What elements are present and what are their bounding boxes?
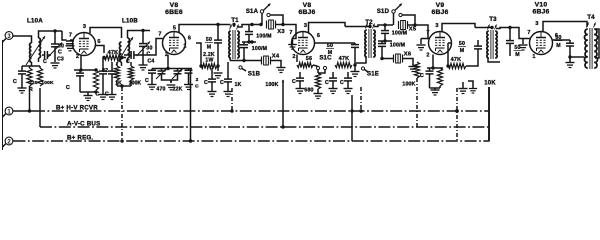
wire terminal 1 stub — [3, 114, 6, 117]
capacitor 50/M T3 — [509, 28, 511, 41]
contact S1D alt — [399, 13, 402, 16]
wire L10B bottom down — [121, 62, 123, 66]
svg-text:V10: V10 — [535, 2, 548, 9]
coil L10B primary — [120, 42, 122, 62]
svg-text:6BE6: 6BE6 — [165, 9, 183, 16]
svg-text:10K: 10K — [484, 81, 496, 87]
capacitor 100/M lower — [243, 42, 245, 45]
capacitor C bypass (333) — [332, 72, 334, 78]
svg-text:C: C — [204, 80, 208, 86]
ground tube4 grid return — [421, 38, 428, 40]
svg-text:C: C — [292, 79, 296, 85]
capacitor 100/M lower stage4 — [381, 41, 383, 44]
svg-text:M: M — [460, 48, 465, 54]
resistor 82 cathode — [93, 70, 98, 90]
wire T1 bottom joins — [229, 58, 231, 61]
wire tube5 grid bracket — [519, 34, 530, 39]
capacitor C bypass (212) — [211, 68, 213, 79]
svg-text:M: M — [556, 43, 561, 49]
svg-text:1: 1 — [532, 54, 535, 60]
wire T1 secondary top to crystal line — [238, 25, 261, 28]
resistor cathode tube4 — [437, 68, 442, 86]
wire T1 top stem — [233, 25, 235, 28]
wire riser T1 B+ — [231, 88, 233, 111]
terminal 3 (input) — [5, 32, 13, 40]
contact S1E — [361, 67, 364, 70]
resistor 220K — [29, 66, 31, 68]
svg-text:C: C — [420, 73, 424, 79]
svg-text:6BJ6: 6BJ6 — [298, 9, 315, 16]
capacitor C osc (188) — [188, 69, 190, 71]
wire S1B contact stub — [242, 69, 246, 72]
capacitor C bypass (300) — [299, 72, 301, 78]
svg-text:470: 470 — [156, 87, 165, 93]
wire riser 10K output (thick) — [488, 87, 490, 142]
wire resistor bottoms join — [117, 85, 131, 87]
wire T2 bottom — [356, 57, 366, 63]
coil L10B secondary — [128, 38, 130, 58]
capacitor screen bypass tube3 — [351, 44, 359, 46]
transformer T1 — [229, 31, 231, 58]
capacitor C bypass L10B — [111, 62, 113, 71]
capacitor grid bypass tube1 — [69, 40, 71, 41]
svg-text:C: C — [220, 80, 224, 86]
left border line — [2, 40, 4, 150]
oscillator network top rail — [152, 68, 192, 70]
svg-text:7: 7 — [527, 30, 530, 36]
capacitor cathode bypass tube4 — [426, 70, 434, 72]
svg-text:S1E: S1E — [367, 72, 379, 78]
wire T4 right bracket — [595, 29, 599, 58]
wire S1D alt bypass — [402, 15, 415, 25]
wire X4 to ground — [271, 61, 282, 68]
ground tube3 grid bypass — [292, 40, 294, 45]
svg-text:6: 6 — [317, 33, 320, 39]
crystal X3 — [266, 21, 268, 29]
svg-text:B+ REG.: B+ REG. — [67, 135, 93, 142]
svg-text:R: R — [29, 87, 33, 93]
svg-text:220: 220 — [29, 80, 38, 86]
svg-text:C: C — [66, 85, 70, 91]
terminal 1 (B+ H-V) — [5, 107, 13, 115]
tube V8 6BJ6 — [292, 32, 315, 55]
small cap on grid line — [250, 40, 253, 43]
svg-text:50: 50 — [206, 37, 212, 43]
wire grid network — [242, 41, 256, 43]
svg-text:L10B: L10B — [122, 18, 138, 25]
capacitor C coupling input — [42, 54, 45, 56]
svg-text:6BJ6: 6BJ6 — [431, 9, 448, 16]
wire tube2 plate top to T1 — [179, 25, 231, 33]
wire tube3 plate right — [315, 42, 356, 44]
wire lower crystal line — [230, 60, 262, 62]
wire tube3 grid bracket — [292, 30, 297, 39]
svg-text:100K: 100K — [402, 82, 415, 88]
capacitor C bypass (103) — [102, 58, 104, 72]
svg-text:100/M: 100/M — [392, 31, 407, 37]
crystal X6 — [393, 55, 395, 63]
svg-text:V8: V8 — [303, 2, 312, 9]
wire T2 top stem — [369, 24, 371, 27]
svg-text:C: C — [340, 80, 344, 86]
ground tube5 grid return — [522, 39, 524, 45]
ground cathode tube4 — [431, 89, 440, 91]
svg-text:C: C — [58, 50, 62, 56]
svg-text:M: M — [207, 45, 212, 51]
svg-text:T4: T4 — [587, 14, 595, 21]
svg-text:47K: 47K — [451, 57, 462, 63]
resistor 2.2K 1W — [201, 63, 217, 68]
wire tube2 cathode down — [167, 55, 169, 69]
svg-text:100/M: 100/M — [252, 46, 267, 52]
svg-text:A-V-C BUS: A-V-C BUS — [67, 121, 100, 128]
svg-text:6: 6 — [97, 39, 100, 45]
svg-text:50: 50 — [327, 43, 333, 49]
svg-text:X4: X4 — [272, 54, 280, 60]
svg-text:100/M: 100/M — [390, 43, 405, 49]
wire X3 to tube3 grid — [276, 25, 297, 31]
wire 47K to L10B bottom — [122, 57, 126, 59]
svg-text:1K: 1K — [235, 82, 242, 88]
B+ REG bus — [13, 140, 489, 142]
transformer T4 — [584, 29, 587, 68]
wire input to L10A — [13, 36, 32, 43]
svg-text:22K: 22K — [172, 87, 182, 93]
wire to T4 bottom — [570, 56, 585, 58]
slug arrow L10A — [26, 36, 45, 65]
svg-text:L10A: L10A — [27, 18, 43, 25]
contact S1B — [239, 66, 242, 69]
wire riser stage4 (dashed) — [456, 88, 458, 141]
trimmer capacitor C4 — [142, 31, 144, 44]
svg-text:6BJ6: 6BJ6 — [532, 9, 549, 16]
wire riser stage3 B+ — [351, 95, 353, 141]
capacitor C coupling L10B — [124, 54, 131, 56]
svg-text:C: C — [13, 79, 17, 85]
resistor 680 — [317, 70, 319, 73]
wire tube4 cathode — [432, 55, 434, 69]
resistor 100K — [130, 62, 132, 66]
wire cap to pin7 — [70, 39, 73, 41]
wire riser stage2 osc B+REG — [190, 69, 192, 142]
svg-text:100K: 100K — [265, 82, 278, 88]
wire X5 to tube4 grid — [408, 25, 429, 30]
svg-text:100/M: 100/M — [256, 34, 271, 40]
wire tube1 pin6 to 47K — [95, 46, 104, 54]
svg-text:X5: X5 — [409, 27, 417, 33]
trimmer 470 — [161, 69, 163, 72]
svg-text:100K: 100K — [41, 80, 54, 86]
wire riser to B+ (stage1) — [29, 90, 31, 111]
svg-text:7: 7 — [69, 33, 72, 39]
slug arrow L10B — [116, 37, 133, 65]
svg-text:1: 1 — [183, 44, 186, 50]
wire riser stage3 screen (dashed) — [360, 87, 362, 111]
svg-text:C: C — [195, 84, 199, 90]
svg-text:3: 3 — [83, 24, 86, 30]
svg-text:C: C — [126, 59, 130, 65]
wire tube4 plate right — [448, 42, 452, 44]
trimmer 22K — [177, 69, 179, 72]
svg-text:C4: C4 — [147, 59, 154, 65]
svg-text:2: 2 — [292, 54, 295, 60]
capacitor 50/M output — [569, 40, 571, 43]
wire X6 to ground — [403, 59, 414, 67]
svg-text:C: C — [95, 92, 99, 98]
cathode RC network box — [74, 69, 96, 71]
svg-text:C: C — [325, 80, 329, 86]
svg-text:T1: T1 — [231, 17, 239, 24]
ground cathode network — [84, 95, 93, 97]
tube V8 6BE6 — [163, 32, 186, 55]
cathode RC box tube4 — [427, 67, 443, 69]
B+ H-V RCVR bus — [13, 110, 33, 112]
svg-text:50: 50 — [514, 45, 520, 51]
capacitor C (input bypass) — [21, 66, 23, 71]
wire L10B top run — [128, 31, 151, 39]
transformer T3 — [487, 31, 489, 58]
svg-text:50: 50 — [555, 35, 561, 41]
wire 47K to ground riser — [354, 43, 356, 45]
wire 47K to cap — [466, 55, 478, 66]
resistor 100K AVC — [39, 66, 41, 68]
svg-text:T3: T3 — [489, 16, 497, 23]
wire S1E contact stub — [365, 70, 369, 73]
wire tube1 plate to L10B — [90, 28, 122, 39]
capacitor C osc (152) — [151, 69, 153, 71]
wire tube4 grid bracket — [427, 30, 430, 39]
ground osc arrow — [170, 80, 172, 83]
svg-text:C3: C3 — [57, 57, 64, 63]
svg-text:S1C: S1C — [319, 56, 332, 62]
svg-text:C: C — [145, 78, 149, 84]
svg-text:2: 2 — [76, 54, 79, 60]
coil L10A primary — [30, 43, 32, 62]
capacitor C bypass (228) — [227, 62, 229, 79]
transformer T2 — [365, 30, 367, 57]
svg-text:6: 6 — [188, 36, 191, 42]
capacitor 50/M screen — [217, 25, 219, 40]
wire to resistors — [22, 65, 40, 67]
svg-text:M: M — [515, 52, 520, 58]
svg-text:S1D: S1D — [377, 9, 390, 15]
svg-text:C: C — [43, 59, 47, 65]
svg-text:S1B: S1B — [248, 72, 261, 78]
resistor 1K stage4 — [414, 62, 419, 78]
capacitor 100/M upper stage4 — [384, 25, 386, 31]
svg-text:3: 3 — [535, 21, 538, 27]
svg-text:C: C — [105, 92, 109, 98]
wire screen cap drop — [196, 43, 201, 66]
wire 56 to contact — [313, 65, 318, 66]
wire tube5 pin6 right — [553, 39, 571, 41]
wire tube1 cathode down — [80, 56, 82, 71]
wire riser 1K decoupling (dashed) — [121, 87, 123, 141]
wire 2.2K to ground — [217, 66, 219, 71]
svg-text:56: 56 — [306, 56, 313, 62]
wire terminal 2 stub — [3, 144, 6, 147]
wire L10A top run — [39, 31, 63, 38]
wire S1A pivot down — [261, 13, 263, 24]
wire grid network stage4 — [378, 40, 392, 42]
wire T3 top stem — [491, 28, 493, 29]
wire S1A alt contact bypass — [270, 15, 283, 25]
resistor 47K — [104, 55, 122, 60]
terminal 2 (B+ REG) — [5, 137, 13, 145]
svg-text:X6: X6 — [404, 52, 412, 58]
coil L10A secondary — [39, 38, 41, 58]
trimmer capacitor C3 — [54, 31, 56, 44]
capacitor C bypass (348) — [347, 72, 349, 78]
wire tube3 cathode leg — [296, 55, 298, 63]
svg-text:2: 2 — [426, 53, 429, 59]
wire grid corner into tube1 — [62, 31, 67, 40]
tube V10 6BJ6 — [530, 32, 553, 55]
wire T2 secondary to crystal line — [374, 25, 393, 27]
A-V-C bus — [39, 88, 41, 127]
wire coupling cap to tube2 grid — [140, 39, 163, 56]
svg-text:B+ H-V RCVR: B+ H-V RCVR — [56, 105, 98, 112]
ground tube1 grid return — [66, 45, 75, 47]
svg-text:7: 7 — [289, 30, 292, 36]
svg-text:X3: X3 — [277, 29, 285, 35]
svg-text:50: 50 — [459, 41, 465, 47]
wire coil bottoms down — [31, 62, 33, 66]
svg-text:5: 5 — [173, 26, 176, 32]
ground output cap — [569, 57, 571, 62]
svg-text:2: 2 — [196, 77, 199, 83]
capacitor cathode bypass tube1 — [76, 72, 84, 74]
capacitor 100/M upper — [248, 25, 250, 32]
wire terminal 3 stub — [3, 39, 6, 42]
svg-text:3: 3 — [435, 23, 438, 29]
svg-text:V8: V8 — [170, 2, 179, 9]
svg-text:S1A: S1A — [246, 9, 259, 15]
svg-text:M: M — [328, 50, 333, 56]
wire lower crystal line stage4 — [382, 58, 394, 60]
crystal X4 — [261, 57, 263, 65]
tube first mixer (unlabeled) — [73, 33, 96, 56]
contact S1A alt — [267, 13, 270, 16]
ground string (463) — [462, 82, 464, 88]
svg-text:680: 680 — [304, 88, 313, 94]
wire T3 secondary to tube5 — [496, 28, 519, 35]
wire T3 bottom — [488, 58, 500, 62]
svg-text:47K: 47K — [339, 56, 350, 62]
svg-text:7: 7 — [158, 32, 161, 38]
wire riser AVC stage3 — [282, 80, 284, 127]
tube V9 6BJ6 — [429, 32, 452, 55]
svg-text:V9: V9 — [436, 2, 445, 9]
wire S1D pivot down — [393, 13, 395, 25]
svg-text:3: 3 — [304, 23, 307, 29]
ground string (473) — [468, 81, 473, 88]
resistor 1K — [116, 62, 118, 66]
crystal X5 — [398, 21, 400, 29]
